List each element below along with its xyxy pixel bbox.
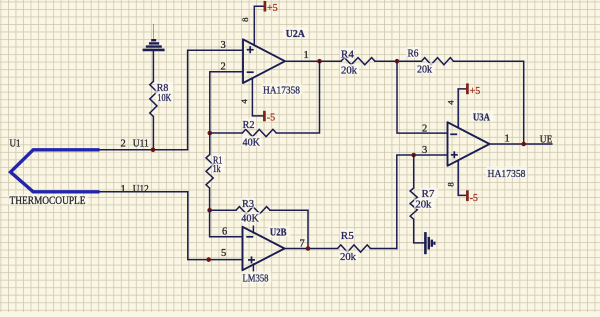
svg-text:2: 2 [422,124,427,135]
junction on U12/pin5 wire [206,257,211,262]
wire output down to R2 [276,61,319,133]
svg-text:R4: R4 [341,50,354,61]
U2A minus marker [247,71,254,73]
wire R3 right and down to U2B output [270,210,308,248]
op-amp U3A triangle [448,122,490,166]
svg-text:5: 5 [221,248,226,259]
svg-text:1: 1 [505,134,510,145]
junction feedback/output [521,142,526,147]
wire node to R1 [209,133,211,155]
svg-text:U12: U12 [133,184,149,195]
svg-text:2: 2 [121,139,126,150]
junction R1/R2/pin2 [208,131,213,136]
resistor R2 [242,129,276,136]
junction R3/output [306,246,311,251]
U2A plus marker [247,46,254,53]
resistor R8 [150,81,157,116]
wire U11 horizontal [100,149,188,151]
svg-text:8: 8 [240,17,250,22]
resistor R1 [206,155,213,189]
U2B pin 8 stub [252,226,254,234]
power +5 bar (U2A) [264,1,267,12]
ground (power ground above R8) [143,24,165,50]
svg-text:6: 6 [222,227,227,238]
svg-text:20k: 20k [415,199,431,210]
svg-text:-5: -5 [470,193,478,204]
wire R5 to U3A pin3 [397,155,448,249]
svg-text:U3A: U3A [473,113,490,124]
wire U2B pin7 output [285,248,338,250]
svg-text:20k: 20k [417,64,432,75]
wire R7 to ground [414,219,424,243]
op-amp U2B triangle [243,227,285,270]
junction R8/U11 [151,148,156,153]
wire R1 to R3 node [209,188,211,210]
U3A pin 8 wire to -5 [458,160,467,195]
svg-text:10K: 10K [157,93,172,104]
power -5 bar (U2A) [263,111,266,122]
U3A minus marker [450,133,457,135]
svg-text:R5: R5 [341,231,354,242]
svg-text:UE: UE [540,134,553,145]
svg-text:HA17358: HA17358 [263,86,300,97]
U3A plus marker [451,151,458,158]
U2A pin 4 wire to -5 [252,78,264,116]
svg-text:U1: U1 [10,139,21,150]
svg-text:40K: 40K [241,214,259,225]
wire U12 horizontal [100,192,243,260]
wire junction down to U3A pin2 [397,61,448,133]
svg-text:LM358: LM358 [243,273,269,284]
svg-text:U11: U11 [133,139,149,150]
svg-text:20k: 20k [341,66,357,77]
svg-text:HA17358: HA17358 [488,169,526,180]
wire node to U2B pin6 [210,210,243,237]
junction pin3/R7 [411,153,416,158]
U3A pin 4 wire to +5 [458,89,467,128]
svg-text:1: 1 [121,184,126,195]
svg-text:20k: 20k [340,252,356,263]
U2B minus marker [246,236,253,238]
svg-text:R2: R2 [243,120,255,131]
ground (power ground at R7) [425,232,434,254]
wire U2A pin2 [210,72,243,133]
svg-text:THERMOCOUPLE: THERMOCOUPLE [10,195,86,207]
wire U11 up to U2A pin3 [188,50,243,150]
power +5 bar (U3A) [466,83,469,94]
svg-text:3: 3 [221,40,226,51]
U2B plus marker [248,256,255,263]
svg-text:R6: R6 [408,49,419,60]
svg-text:-5: -5 [267,112,275,123]
wire U3A pin1 output UE [490,143,552,145]
wire U2A pin1 output [285,60,341,62]
svg-text:8: 8 [445,182,455,187]
resistor R5 [338,245,371,252]
U2B pin 4 stub [252,263,254,271]
resistor R3 [236,207,270,214]
svg-text:U2A: U2A [286,29,305,40]
wire R2 left [210,132,243,134]
svg-text:+5: +5 [267,3,278,14]
svg-text:R3: R3 [242,199,254,210]
wire ground to R8 [152,51,154,81]
junction R4/R6/pin2 [395,59,400,64]
svg-text:7: 7 [300,238,305,249]
svg-text:+5: +5 [470,86,481,97]
thermocouple U1 [11,150,100,192]
junction output/R2 [317,59,322,64]
svg-text:U2B: U2B [270,228,287,239]
resistor R6 [422,58,454,65]
svg-text:4: 4 [239,99,249,104]
U2A pin 8 wire to +5 [254,6,264,45]
wire R8 to U11 [152,117,154,150]
svg-text:3: 3 [422,145,427,156]
resistor R7 [410,188,417,219]
wire R4 to R6 [375,60,422,62]
svg-text:1k: 1k [213,164,221,175]
svg-text:40K: 40K [243,138,261,149]
svg-text:4: 4 [446,100,456,105]
resistor R4 [341,58,375,65]
wire node to R3 [210,209,236,211]
svg-text:1: 1 [304,50,309,61]
op-amp U2A triangle [243,39,285,83]
wire R5 right [371,248,397,250]
junction R1/R3/pin6 [207,208,212,213]
wire R6 right to feedback [454,61,524,144]
wire node to R7 [413,155,415,188]
power -5 bar (U3A) [466,190,469,201]
svg-text:2: 2 [221,61,226,72]
